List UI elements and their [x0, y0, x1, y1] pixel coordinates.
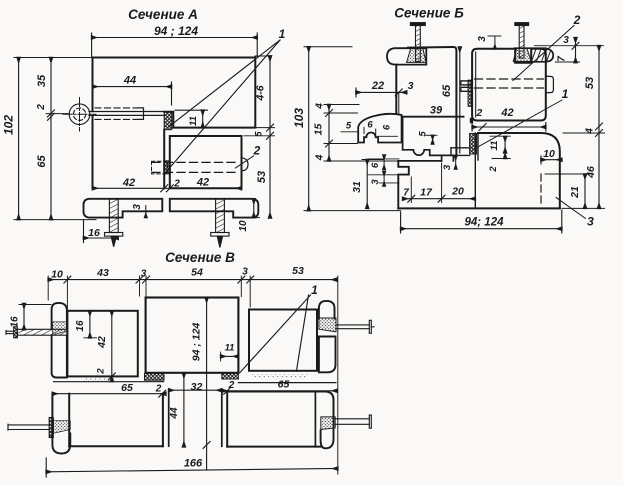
left frame body (V) [52, 336, 67, 378]
svg-text:11: 11 [225, 343, 235, 354]
svg-text:44: 44 [169, 407, 180, 420]
top rail profile (A) [93, 58, 256, 128]
dimension 11/2 (B center) [490, 136, 510, 158]
dimension line 2/65 (V bottom right) [222, 387, 337, 394]
seal hatch bar upper (A) [164, 112, 172, 130]
svg-text:103: 103 [292, 108, 306, 128]
hinge profile (B) [358, 114, 401, 143]
svg-text:94 ; 124: 94 ; 124 [191, 323, 203, 362]
threshold profile left (A) [84, 199, 163, 218]
screw lower right (V) [335, 415, 371, 428]
svg-text:2: 2 [253, 144, 261, 158]
svg-text:4-6: 4-6 [255, 85, 267, 101]
leader callout 3 (B) [556, 198, 586, 219]
svg-text:31: 31 [351, 181, 363, 193]
upper-right sash rect (V) [249, 310, 317, 371]
svg-text:7: 7 [403, 188, 409, 199]
svg-text:11: 11 [188, 116, 199, 126]
svg-text:65: 65 [121, 382, 133, 394]
svg-text:2: 2 [36, 104, 47, 111]
right jamb lobe (V upper) [319, 301, 335, 319]
sash profile (B upper right) [472, 49, 546, 121]
svg-text:3: 3 [477, 36, 488, 42]
dimension line 65 (B) [459, 47, 461, 153]
hinge profile foot ticks (B) [341, 128, 398, 137]
lower-right bulb hatch (V) [321, 417, 335, 430]
sill upper block (B) [403, 117, 454, 161]
svg-text:20: 20 [451, 186, 464, 198]
dimension line 46/5/53 (A right) [244, 56, 275, 218]
svg-text:15: 15 [313, 124, 325, 136]
svg-text:11: 11 [489, 141, 500, 151]
svg-text:6: 6 [382, 124, 393, 130]
svg-text:16: 16 [88, 227, 100, 239]
lower-right rect (V) [227, 392, 333, 447]
svg-text:10: 10 [51, 269, 63, 281]
svg-text:46: 46 [585, 166, 597, 179]
svg-text:43: 43 [96, 267, 109, 279]
bottom edge (B) [398, 207, 560, 209]
right jamb wedge hatch (V upper) [319, 318, 336, 332]
screw upper left (V) [6, 327, 67, 338]
sash dashed lines (B) [475, 79, 544, 88]
svg-text:17: 17 [420, 186, 433, 198]
sash left tabs (B) [461, 81, 472, 91]
svg-text:Сечение А: Сечение А [128, 7, 198, 22]
dimension 3 small (B sill) [368, 172, 399, 187]
svg-text:3: 3 [587, 215, 594, 229]
svg-text:65: 65 [36, 155, 48, 168]
svg-text:4: 4 [315, 103, 326, 110]
seal hatch bar lower (A) [165, 161, 171, 174]
leader lines callout 1 (A) [167, 40, 281, 172]
dimension 166 (V bottom) [46, 458, 338, 477]
cap hatch (B right) [532, 49, 551, 62]
dimension line 10/43/3/54/3/53 (V top) [48, 276, 337, 283]
sash right tab (B) [546, 76, 554, 92]
svg-text:32: 32 [191, 381, 203, 393]
lower-right bulb (V) [321, 416, 334, 449]
dimension 31 (B) [362, 160, 384, 209]
svg-text:22: 22 [371, 80, 384, 92]
dimension 94;124 (V center) [203, 298, 210, 471]
dimension 7/17/20 (B sill bottom) [403, 163, 476, 203]
leader line callout 2 (A) [235, 156, 253, 168]
svg-text:1: 1 [562, 87, 569, 101]
svg-text:53: 53 [292, 265, 304, 277]
svg-text:10: 10 [238, 220, 249, 232]
dimension 16 (A) [84, 221, 119, 243]
svg-text:53: 53 [256, 171, 268, 183]
extension line x=398.8 (B) [398, 92, 400, 114]
svg-text:16: 16 [75, 320, 86, 332]
sash cap (B right) [515, 48, 554, 62]
dimension line 4/15/4 (B hinge) [324, 105, 402, 162]
dimension 3 (A threshold step) [141, 206, 152, 218]
screw upper right (V) [336, 320, 374, 333]
svg-text:21: 21 [569, 186, 581, 199]
dimension 5 sill notch (B) [426, 135, 437, 144]
dimension 11 (A) [175, 110, 208, 127]
channel end bracket (A) [138, 108, 144, 120]
floor screw left (A) [105, 199, 123, 247]
dimension line 94;124 (B bottom) [401, 210, 562, 233]
svg-text:44: 44 [123, 75, 136, 87]
dimension 21 (B right) [545, 174, 590, 208]
second line under left sash (V) [54, 381, 164, 383]
seal strip left of sash (B) [468, 80, 471, 107]
sill top edge / 39 line (B) [402, 116, 464, 118]
svg-text:3: 3 [141, 269, 147, 280]
head cap profile (B left) [387, 48, 426, 64]
dimension line 53/4/46 (B far right) [562, 46, 605, 209]
svg-text:16: 16 [10, 316, 21, 328]
cap countersink (B right) [513, 48, 531, 61]
svg-text:3: 3 [242, 267, 248, 278]
svg-text:1: 1 [279, 27, 286, 41]
svg-text:Сечение В: Сечение В [165, 250, 235, 265]
mullion seal left (V) [145, 373, 165, 380]
floor screw right (A) [211, 199, 229, 248]
svg-text:94 ; 124: 94 ; 124 [154, 24, 198, 38]
leader callout 2 (B) [513, 26, 574, 81]
extension line top (B left) [304, 46, 352, 48]
svg-text:2: 2 [488, 166, 499, 173]
svg-text:3: 3 [132, 204, 143, 210]
channel wall left (V) [168, 390, 170, 446]
threshold profile right (A) [170, 199, 258, 218]
dimension 3 (B sill step) [455, 155, 457, 169]
lower-right rect bottom edge (V) [227, 446, 320, 448]
seal black block (B) [470, 118, 473, 123]
svg-text:65: 65 [441, 84, 453, 97]
dimension line 103 (B left) [308, 47, 310, 211]
extension line bottom (A left) [14, 219, 96, 221]
svg-text:39: 39 [430, 105, 443, 117]
svg-text:42: 42 [196, 177, 209, 189]
svg-text:2: 2 [155, 384, 162, 395]
dashed keeper box (A) [152, 161, 168, 174]
extension lines (V top dims) [48, 276, 338, 474]
svg-text:7: 7 [557, 56, 568, 62]
lower-right rect inner edge (V) [314, 392, 316, 447]
sash inner left edge (B) [475, 52, 477, 117]
dimension line 22/3 (B) [356, 88, 407, 97]
dimension 11 (V) [221, 352, 239, 361]
countersink stipple (B left) [407, 48, 427, 62]
sill step bar (B) [451, 148, 470, 156]
svg-text:42: 42 [500, 107, 513, 119]
dotted seal under right sash (V) [252, 375, 308, 378]
svg-text:4: 4 [315, 154, 326, 161]
dimension 42/2 (V upper sash) [108, 311, 115, 382]
seal checker strip (B) [470, 134, 477, 155]
sash bottom rail left edges (B) [475, 133, 478, 208]
svg-text:1: 1 [311, 283, 318, 297]
svg-text:3: 3 [563, 35, 569, 46]
dimension line 2/42 (B sash bottom) [472, 123, 546, 132]
dimension 10 (A right) [247, 199, 260, 218]
svg-text:10: 10 [543, 148, 555, 160]
svg-text:42: 42 [122, 177, 135, 189]
dimension 16 (V far left) [19, 304, 51, 330]
svg-text:3: 3 [442, 164, 453, 170]
dimension 10 (B right) [541, 156, 562, 164]
sill base step (B) [441, 155, 443, 161]
upper-left sash rect (V) [67, 311, 137, 377]
head jamb inner edge (B) [395, 65, 397, 114]
dashed lock bolt lines (A) [152, 162, 236, 172]
sill base top edge (B) [398, 160, 441, 162]
svg-text:6: 6 [367, 120, 373, 131]
svg-text:54: 54 [191, 267, 203, 279]
svg-text:2: 2 [96, 368, 107, 375]
dimension line 65/2 (V bottom left) [52, 390, 165, 397]
extension line bottom (B left) [304, 210, 401, 212]
svg-text:4: 4 [585, 128, 596, 135]
left frame lobe (V) [52, 303, 67, 329]
frame head top edge (B) [408, 47, 456, 156]
channel wall right (V) [221, 390, 223, 447]
right jamb body (V upper) [319, 337, 336, 373]
dimension line 42/2/42 (A bottom) [93, 185, 242, 192]
dimension line 35/2/65 (A left inner) [48, 58, 55, 220]
svg-text:3: 3 [408, 80, 414, 92]
dotted seal under left sash (V) [84, 378, 115, 382]
svg-text:65: 65 [278, 379, 290, 391]
dashed fixing channel (A) [95, 108, 137, 120]
svg-text:42: 42 [96, 336, 108, 349]
svg-text:2: 2 [173, 178, 180, 189]
left door leaf (A) [93, 115, 165, 188]
mullion rect (V) [146, 298, 239, 373]
sash bottom rail (B right) [478, 133, 560, 208]
dimension line 102 (A left outer) [18, 58, 20, 220]
screw lower left (V) [8, 418, 70, 438]
screw (B left) [410, 23, 425, 62]
svg-text:Сечение Б: Сечение Б [394, 6, 464, 21]
svg-text:2: 2 [476, 108, 483, 119]
svg-text:5: 5 [418, 131, 429, 137]
extension line screw axis (A left) [46, 113, 68, 115]
dimension 3/7 (B top right) [535, 38, 604, 63]
svg-text:2: 2 [228, 380, 235, 391]
dimension 44 (V channel) [183, 373, 185, 447]
dimension 16 (V sash inner) [84, 311, 97, 338]
dimension 32 (V channel) [169, 389, 222, 391]
seal wedge upper-left (V) [53, 322, 67, 335]
dimension line 94;124 (A top) [92, 33, 258, 58]
dimension 6 small (B) [368, 155, 399, 170]
svg-text:53: 53 [584, 77, 596, 89]
svg-text:102: 102 [2, 115, 16, 135]
sill base block (B) [398, 161, 409, 209]
dashed line in bottom rail (B) [540, 174, 542, 206]
screw (B right) [515, 23, 529, 58]
mullion seal right (V) [222, 373, 239, 379]
dimension 3 (B sash top) [488, 36, 501, 49]
svg-text:3: 3 [370, 179, 381, 185]
dimension 44 (A) [93, 82, 172, 105]
svg-text:94; 124: 94; 124 [464, 217, 504, 229]
line under right sash (V) [238, 382, 336, 384]
svg-text:6: 6 [370, 162, 381, 168]
lower-left rect (V) [52, 394, 162, 447]
right door leaf (A) [170, 136, 242, 188]
leader callout 1 (B) [473, 100, 563, 150]
svg-text:35: 35 [36, 74, 48, 87]
svg-text:166: 166 [184, 458, 203, 470]
extension line top (A left) [14, 57, 93, 59]
screw shaft (A left) [89, 112, 164, 116]
lock cylinder bump (A) [242, 158, 249, 171]
svg-text:5: 5 [346, 121, 352, 132]
leader lines callout 1 (V) [240, 295, 311, 373]
svg-text:2: 2 [573, 13, 581, 27]
lower-left bulb (V) [52, 434, 70, 454]
screw head circle (A) [63, 98, 96, 132]
